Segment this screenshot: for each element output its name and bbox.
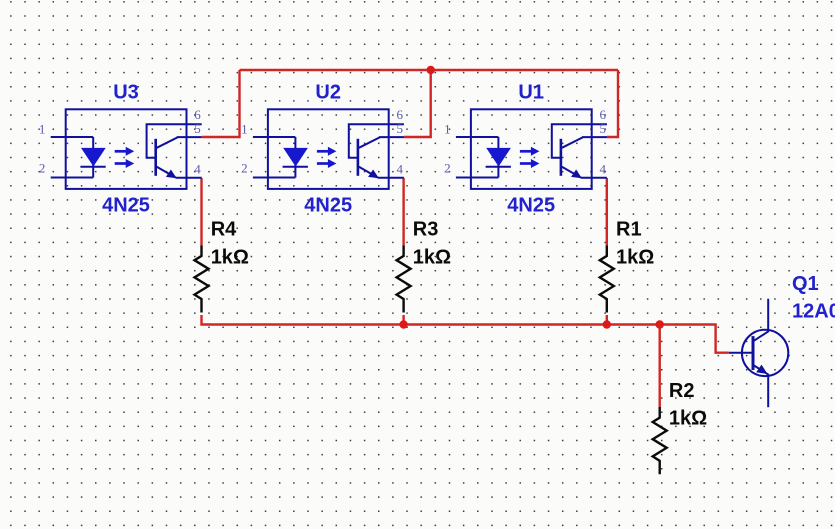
wire: bus down to R2: [659, 325, 661, 408]
svg-text:4N25: 4N25: [102, 194, 150, 216]
svg-text:1kΩ: 1kΩ: [616, 246, 654, 268]
svg-text:4: 4: [194, 161, 201, 176]
opto-coupler U3: [39, 82, 202, 217]
svg-text:R4: R4: [211, 218, 237, 240]
svg-text:R1: R1: [616, 218, 642, 240]
svg-text:1: 1: [39, 121, 46, 136]
svg-text:12A02CH: 12A02CH: [792, 301, 835, 323]
junction on rail: [427, 66, 435, 74]
wire: U3 pin4 down to R4: [200, 178, 202, 245]
svg-text:2: 2: [39, 161, 46, 176]
svg-text:5: 5: [194, 121, 201, 136]
svg-text:1: 1: [444, 121, 451, 136]
svg-text:5: 5: [600, 121, 607, 136]
svg-text:Q1: Q1: [792, 273, 819, 295]
resistor R2: [653, 380, 707, 474]
resistor R4: [195, 218, 249, 312]
svg-text:1: 1: [241, 121, 248, 136]
wire: R1 bottom stub: [606, 315, 608, 325]
wire: top rail: [240, 69, 619, 71]
svg-text:2: 2: [241, 161, 248, 176]
svg-text:U3: U3: [113, 82, 139, 104]
svg-text:R3: R3: [413, 218, 439, 240]
svg-text:U2: U2: [315, 82, 341, 104]
svg-text:6: 6: [397, 107, 404, 122]
wire: U3 pin5 to rail: [202, 70, 240, 137]
svg-text:6: 6: [600, 107, 607, 122]
svg-text:4N25: 4N25: [304, 194, 352, 216]
svg-text:5: 5: [397, 121, 404, 136]
wire: U2 pin4 down to R3: [402, 178, 404, 245]
wire: U1 pin4 down to R1: [606, 178, 608, 245]
svg-text:6: 6: [194, 107, 201, 122]
svg-text:U1: U1: [518, 82, 544, 104]
wire: bottom bus: [202, 315, 729, 353]
junction at R2/bus: [656, 320, 664, 328]
svg-text:4N25: 4N25: [507, 194, 555, 216]
svg-text:4: 4: [600, 161, 607, 176]
svg-text:4: 4: [397, 161, 404, 176]
svg-text:1kΩ: 1kΩ: [669, 408, 707, 430]
wire: R3 bottom stub: [402, 315, 404, 325]
svg-text:R2: R2: [669, 380, 695, 402]
opto-coupler U2: [241, 82, 404, 217]
junction at R3/bus: [399, 320, 407, 328]
resistor R1: [600, 218, 654, 312]
svg-text:1kΩ: 1kΩ: [211, 246, 249, 268]
transistor Q1: [729, 273, 835, 408]
opto-coupler U1: [444, 82, 607, 217]
wire: U2 pin5 to rail: [404, 70, 431, 137]
svg-text:2: 2: [444, 161, 451, 176]
junction at R1/bus: [603, 320, 611, 328]
svg-text:1kΩ: 1kΩ: [413, 246, 451, 268]
resistor R3: [397, 218, 451, 312]
wire: U1 pin5 to rail: [607, 70, 618, 137]
